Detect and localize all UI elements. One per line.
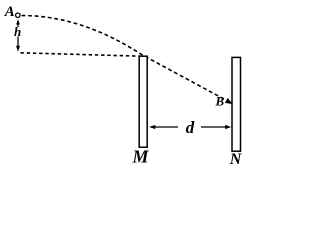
svg-text:A: A	[4, 4, 15, 20]
svg-text:d: d	[186, 118, 195, 137]
svg-text:M: M	[131, 147, 149, 167]
svg-text:B: B	[214, 94, 224, 109]
svg-text:N: N	[229, 151, 243, 168]
svg-text:h: h	[14, 24, 21, 39]
